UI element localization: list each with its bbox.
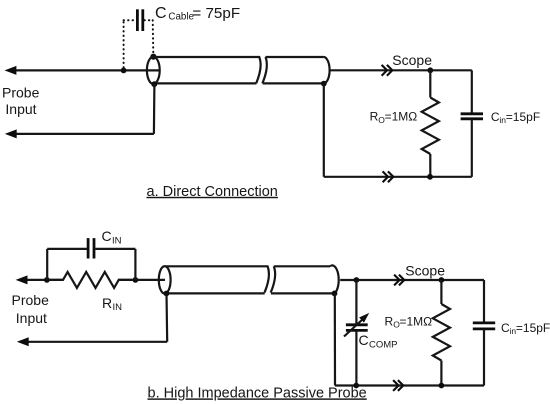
wire C_COMP upper lead (355, 280, 357, 324)
node coax bottom at cap (section b) (332, 291, 338, 297)
connector chevrons top rail (section b) (394, 275, 404, 286)
node bottom rail junction (section a) (427, 174, 433, 180)
wire ground return horizontal (section b) (25, 341, 167, 343)
resistor R_O zigzag (section a) (422, 98, 439, 155)
svg-text:= 75pF: = 75pF (192, 5, 240, 22)
wire probe input top (section a) (13, 69, 160, 71)
node bottom rail C_COMP junction (section b) (353, 383, 359, 389)
node scope top junction (section b) (439, 277, 445, 283)
connector chevrons top rail (section a) (382, 65, 393, 76)
label Probe Input (section b) (12, 292, 50, 326)
svg-text:C: C (359, 332, 369, 348)
svg-text:=15pF: =15pF (506, 110, 540, 124)
label C_Cable = 75pF (155, 5, 240, 23)
connector chevrons bottom rail (section b) (393, 380, 403, 391)
capacitor C_IN plates (88, 238, 94, 258)
arrowhead probe input (section b) (16, 275, 28, 284)
svg-text:R: R (370, 110, 379, 124)
wire probe input right segment (section b) (118, 279, 165, 281)
node junction on probe wire (section a) (121, 68, 127, 74)
label C_in=15pF (section b) (501, 321, 550, 336)
wire center conductor to scope (section b top rail) (340, 279, 484, 281)
wire shield to ground return vertical (section b) (165, 294, 168, 342)
label C_COMP (359, 332, 398, 350)
coax cable right end cap (section b) (330, 265, 339, 293)
coax cable right end cap (section a) (323, 57, 329, 83)
coax cable bottom line right piece (section a) (263, 82, 324, 84)
label Probe Input (section a) (2, 85, 40, 118)
wire probe input left segment (section b) (24, 279, 64, 281)
wire C_IN bracket top right (95, 248, 135, 250)
wire bottom rail (section b) (335, 384, 484, 386)
svg-text:R: R (385, 314, 394, 328)
svg-text:Cable: Cable (168, 11, 194, 22)
svg-text:=1MΩ: =1MΩ (400, 314, 433, 328)
coax cable left end ellipse (section a) (147, 57, 160, 84)
svg-text:=15pF: =15pF (516, 321, 550, 335)
node bottom rail R junction (section b) (439, 383, 445, 389)
node left junction (section b) (44, 277, 50, 283)
coax cable break right curve (section a) (262, 57, 267, 83)
wire C_IN bracket right vertical (134, 249, 136, 280)
node C_COMP top junction (354, 277, 360, 283)
label R_IN (102, 295, 122, 313)
svg-text:C: C (155, 5, 167, 22)
coax cable top line right piece (section a) (266, 56, 324, 58)
svg-text:Probe: Probe (12, 292, 50, 308)
resistor R_O lead top (section a) (429, 70, 431, 97)
wire dotted left horizontal to C_Cable (124, 19, 136, 21)
svg-text:Input: Input (16, 310, 47, 326)
svg-text:a. Direct Connection: a. Direct Connection (147, 184, 278, 200)
node coax bottom left (section a) (151, 81, 157, 87)
wire C_IN bracket top left (47, 248, 87, 250)
label C_IN (102, 228, 122, 246)
svg-text:b. High Impedance Passive Prob: b. High Impedance Passive Probe (148, 385, 367, 401)
wire right vertical upper (section a) (471, 70, 473, 113)
wire shield vertical down from cap (section b) (334, 293, 336, 385)
wire bottom rail (section a) (324, 176, 472, 178)
label R_O=1MOhm (section a) (370, 110, 418, 125)
wire shield to ground return vertical (section a) (153, 84, 156, 134)
wire right vertical upper (section b) (483, 280, 485, 323)
wire shield vertical down (section a) (323, 84, 325, 177)
arrowhead probe input top (section a) (5, 66, 17, 75)
label R_O=1MOhm (section b) (385, 314, 433, 329)
connector chevrons bottom rail (section a) (383, 171, 394, 182)
svg-text:R: R (102, 295, 112, 311)
node right junction (section b) (133, 277, 139, 283)
coax cable left end ellipse (section b) (159, 266, 171, 293)
resistor R_O zigzag (section b) (433, 304, 450, 360)
svg-text:IN: IN (113, 302, 123, 313)
wire dotted right horizontal from C_Cable (144, 19, 152, 21)
svg-text:Input: Input (5, 101, 36, 117)
wire C_COMP lower lead (355, 331, 357, 386)
resistor R_IN zigzag (50, 272, 132, 288)
coax cable top line right piece (section b) (274, 265, 330, 267)
wire center conductor to scope (section a top rail) (329, 69, 472, 71)
label C_in=15pF (section a) (491, 110, 540, 125)
resistor R_O lead bottom (section b) (440, 361, 442, 386)
svg-text:COMP: COMP (369, 340, 398, 351)
wire right vertical lower (section a) (471, 119, 473, 177)
coax cable bottom line right piece (section b) (271, 292, 335, 294)
wire dotted right vertical down to cable shield (152, 20, 155, 53)
node coax bottom at cap (section a) (321, 81, 327, 87)
wire right vertical lower (section b) (483, 329, 485, 386)
coax cable break right curve (section b) (271, 266, 276, 292)
coax cable top line left piece (section a) (153, 57, 260, 83)
node coax bottom left (section b) (164, 291, 170, 297)
svg-text:C: C (102, 228, 112, 244)
resistor R_O lead top (section b) (440, 280, 442, 304)
wire ground return horizontal (section a) (13, 133, 154, 135)
capacitor C_in plates (section b) (473, 323, 495, 329)
node on coax top (section a) (150, 54, 156, 60)
svg-text:=1MΩ: =1MΩ (385, 110, 418, 124)
svg-text:Scope: Scope (405, 263, 445, 279)
coax cable top line left piece (section b) (165, 266, 269, 292)
capacitor C_Cable plates (137, 9, 142, 31)
arrowhead ground return (section b) (17, 337, 29, 346)
node scope top junction (section a) (427, 67, 433, 73)
svg-text:Scope: Scope (392, 52, 432, 68)
coax cable bottom line left piece (section b) (167, 292, 265, 294)
wire C_IN bracket left vertical (46, 249, 48, 280)
capacitor C_in plates (section a) (461, 114, 483, 119)
capacitor C_COMP plates (346, 325, 368, 331)
arrowhead ground return (section a) (5, 129, 17, 138)
arrow through C_COMP (variable) (344, 313, 369, 337)
wire dotted left vertical to C_Cable (123, 20, 125, 67)
svg-text:IN: IN (112, 235, 122, 246)
coax cable bottom line left piece (section a) (156, 82, 257, 84)
resistor R_O lead bottom (section a) (429, 154, 431, 177)
svg-text:Probe: Probe (2, 85, 40, 101)
